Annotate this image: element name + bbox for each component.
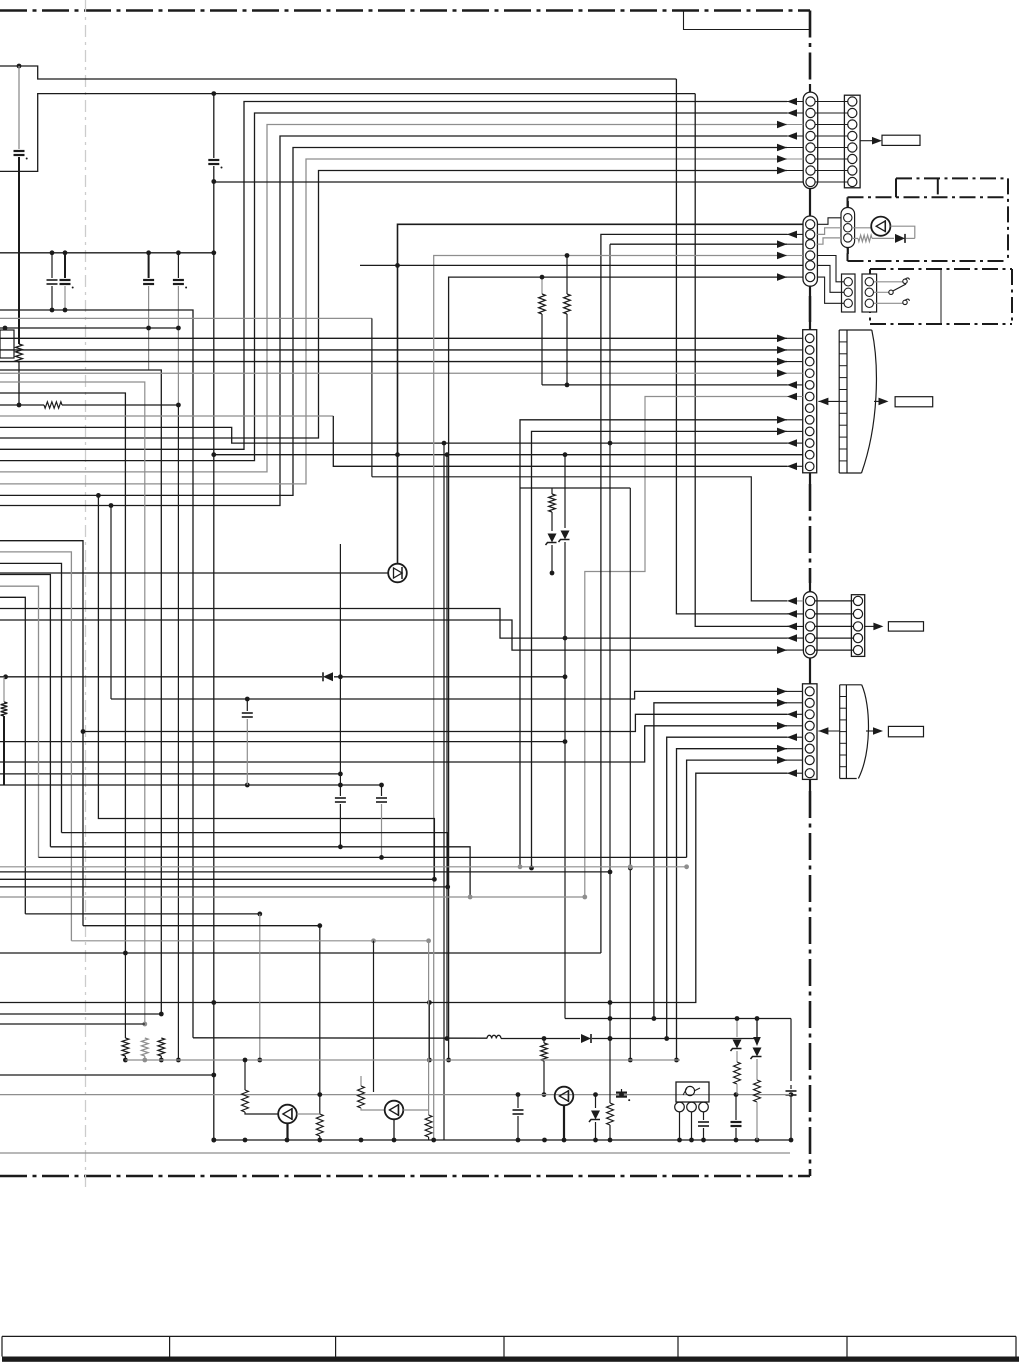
label box for CN102: [882, 135, 920, 145]
wire net-CN1-7 (left bundle to CN101 pin 7): [0, 171, 787, 439]
wire to CN301 pin2: [0, 349, 787, 351]
wire rail y676.8 with diode D1: [0, 676, 322, 678]
wire staircase net-S2: [0, 552, 71, 941]
label callout arrow for FPC2: [866, 730, 878, 732]
connector CN202 shell (3pin): [841, 208, 855, 248]
pi-shape top wire: [520, 487, 630, 489]
wire y370 riser x161 to R bottom-left: [0, 370, 161, 1014]
CN101-CN102 interconnect wires: [815, 101, 848, 103]
wire VCC top-left horizontal: [0, 66, 676, 79]
wire rail y310 to riser x193: [0, 310, 193, 1038]
transistor Q5: [555, 1087, 574, 1106]
wire rail y1038.5 with coil L1 and diode D5: [193, 1037, 487, 1039]
connector CN204 shell (3pin): [862, 274, 877, 312]
riser x444: [443, 443, 445, 1140]
wire net-CN1-5 (left bundle to CN101 pin 5): [0, 148, 787, 496]
jog CN201 pin1 to CN202 pin1: [817, 218, 841, 225]
riser x428.6 to R9: [428, 941, 430, 1115]
connector CN102 shell: [844, 95, 860, 188]
capacitor C9 x381.5: [381, 785, 383, 796]
arrow CN401 pin2: [787, 613, 803, 615]
wire rail y318 gray to riser x371.9: [0, 317, 372, 319]
resistor R1 vertical: [16, 344, 23, 362]
arrow CN301 to FPC1: [818, 400, 839, 402]
wire rail y741.6: [0, 741, 565, 743]
wire rail y925.7 to riser x319.8: [83, 925, 320, 927]
dash-dot box LED unit: [848, 196, 1009, 198]
wire bold below C1: [18, 157, 20, 344]
wire rail y897 gray: [0, 896, 585, 898]
wire y382 gray riser x144.8: [0, 382, 145, 1024]
resistor R11 below rail y1038: [543, 1039, 545, 1044]
resistor R5 below pi-top: [549, 494, 556, 512]
connector CN301 pins: [805, 334, 814, 343]
wire rail y832.6 jog to y886.9: [62, 833, 448, 887]
relay switch contacts: [874, 281, 903, 283]
wire staircase net-S1: [0, 541, 83, 926]
jog CN201 pin5 to CN203 pin2: [817, 265, 844, 292]
fold center line (light gray dash-dot): [85, 0, 87, 1190]
flex ribbon FPC2 body: [839, 685, 841, 779]
capacitor C14: [735, 1095, 737, 1120]
wire rail y1153 gray: [0, 1152, 790, 1154]
zener D7 chain x737: [736, 1019, 738, 1038]
wire to CN201 pin3: [610, 243, 787, 245]
wire rail y785 with caps: [0, 784, 382, 786]
LED D4 gray: [895, 234, 905, 243]
label box for FPC2: [888, 726, 923, 736]
connector CN101 pins: [806, 97, 815, 106]
resistor R9: [425, 1115, 432, 1137]
connector CN402 shell: [851, 595, 864, 657]
wire y405 with resistor R2: [0, 404, 44, 406]
opto coupler U1: [676, 1082, 709, 1102]
Q3 emitter bold to ground: [286, 1123, 288, 1140]
capacitor C2 (electrolytic) on riser x213.8: [213, 94, 215, 158]
riser x447: [446, 455, 448, 1039]
Q4 collector link: [403, 1109, 428, 1111]
connector CN401 shell: [803, 592, 817, 658]
wire to CN4 pin3 vertical: [695, 94, 797, 627]
wire rail y1018.5 (box top): [565, 1018, 791, 1020]
wire net-CN1-2 (left bundle to CN101 pin 2): [0, 113, 787, 461]
node on rail y699: [245, 697, 250, 702]
flex ribbon FPC1 curve: [862, 330, 877, 473]
wire rail y886.9: [0, 886, 448, 888]
board outline top dash-dot border: [0, 9, 810, 12]
transistor Q4: [360, 1076, 362, 1086]
jog CN201 pin2 to CN202 pin2 gray: [817, 228, 841, 235]
riser x373.5: [373, 941, 375, 1092]
wire to CN301 pin5 from R3/R4 node: [542, 384, 787, 386]
wire rail y1075: [0, 1074, 214, 1076]
capacitor C6 electrolytic: [177, 253, 179, 278]
wire rail y866.8 gray: [0, 866, 687, 868]
connector CN301 shell: [803, 330, 817, 473]
label box for CN402: [888, 622, 923, 631]
wire to CN301 pin4 gray: [0, 372, 787, 374]
ground bus y1140: [214, 1139, 793, 1141]
Q3 collector link: [297, 1113, 320, 1115]
wire to CN4 pin2 vertical: [676, 79, 797, 614]
wire to CN501 pin8 riser x695.8 from rail y1002.5: [0, 773, 787, 1002]
capacitor C5: [148, 253, 150, 278]
riser x259.8: [259, 914, 261, 1060]
connector CN101 shell: [803, 92, 818, 189]
connector CN402 pins: [853, 596, 862, 605]
wire to CN301 pin12 zigzag from y416: [0, 415, 333, 417]
capacitor C1 (electrolytic) on riser x19: [18, 66, 20, 149]
riser x630 long: [629, 488, 631, 1060]
wire net-CN1-1 (left bundle to CN101 pin 1): [0, 102, 787, 450]
node J0 junction dot: [17, 64, 22, 69]
CN401 bus stub bottom: [809, 658, 811, 684]
photo transistor Q2: [852, 227, 871, 229]
wire net-CN1-6 (left bundle to CN101 pin 6): [0, 159, 787, 484]
riser x791 with capacitor C10: [790, 1019, 792, 1082]
wire rail y879.3: [0, 878, 434, 880]
zener diode D3 on riser x565: [564, 455, 566, 528]
jog CN201 pin4 to CN203 pin1: [817, 256, 844, 282]
wire rail y940.8 gray to risers x373.5 x428.6: [71, 940, 428, 942]
CN501 bus stub bottom: [809, 779, 811, 791]
flex ribbon FPC2 curve: [858, 685, 868, 779]
capacitor C7 x247: [246, 699, 248, 711]
wire to CN301 pin9 from riser x531.5: [532, 431, 788, 868]
wire rail y253: [0, 252, 214, 254]
connector CN102 pins: [848, 97, 857, 106]
CN201 bus stub bottom: [809, 286, 811, 296]
wire to CN301 pin3: [0, 361, 787, 363]
node J1 junction dot on y93.6: [211, 91, 216, 96]
dash-dot box relay unit: [870, 268, 1012, 270]
CN401-CN402 interconnect wires: [815, 600, 854, 602]
wire net-CN1-8 from node J1: [214, 181, 803, 183]
wire to CN501 pin7 riser x686.6 from rail y858.8: [687, 760, 787, 857]
wire y393 riser x125.4: [0, 393, 125, 953]
capacitor C12 polarized: [621, 1089, 623, 1095]
transistor Q1 with circle: [0, 572, 388, 574]
board outline bottom dash-dot border: [0, 1175, 810, 1178]
wire to CN201 pin2: [601, 234, 787, 953]
opto pins to ground: [679, 1112, 681, 1140]
jog CN201 pin6 to CN203 pin3: [817, 277, 844, 303]
riser x178.4 long: [177, 405, 179, 1060]
capacitor C13: [698, 1121, 709, 1123]
wire to CN501 pin2 riser x653.9: [654, 703, 787, 1019]
riser x98.4 from bundle: [98, 495, 434, 879]
wire to CN301 pin6 gray riser x645: [585, 397, 787, 898]
wire to CN401 pin5 from y620 jog x512: [0, 620, 787, 650]
node J2 junction dot: [211, 179, 216, 184]
resistor R3 on riser x542: [541, 277, 543, 294]
connector CN501 pins: [805, 687, 814, 696]
riser x340.4 cap chain top: [339, 544, 341, 785]
arrow CN501 to FPC2: [818, 730, 839, 732]
wire to CN401 pin4 from y608.5 jog x500: [0, 609, 787, 639]
wire to CN301 pin11 plain: [214, 454, 803, 456]
IC pin stub box at left edge: [0, 330, 14, 358]
transistor Q3: [244, 1060, 246, 1090]
jog CN201 pin3 to CN202 pin3 gray: [817, 238, 841, 244]
wire staircase net-S6: [0, 597, 25, 914]
wire to CN501 pin4 from rail y762: [0, 726, 787, 762]
wire rail y846.8 jog to y897: [50, 847, 470, 897]
LED return wire: [890, 226, 914, 238]
junction dots on rail y328: [146, 326, 151, 331]
junction dots on rail y310: [50, 308, 55, 313]
wire to CN501 pin1 from rail y699: [111, 691, 787, 699]
connector CN201 pins: [806, 220, 815, 229]
wire rail y871.9: [0, 871, 610, 873]
diode D6 vertical: [595, 1095, 597, 1108]
riser x757 short with down arrow: [756, 1019, 758, 1041]
connector CN401 pins: [806, 596, 815, 605]
label box for FPC1: [895, 397, 933, 407]
wire net-CN1-4 (left bundle to CN101 pin 4): [0, 136, 787, 506]
wire rail y953: [0, 952, 601, 954]
title box top right: [684, 11, 811, 30]
label callout arrow for FPC1: [874, 400, 878, 402]
wire rail y857.4: [39, 856, 687, 858]
wire to CN301 pin8 from riser x520: [520, 420, 787, 867]
wire to CN501 pin6 riser x676.5: [677, 749, 788, 1060]
CN301 bus stub bottom: [809, 473, 811, 484]
wire to CN201 pin4 riser x433.7 gray: [434, 256, 787, 1141]
wire staircase net-S3: [0, 563, 62, 832]
capacitor C3: [51, 253, 53, 278]
resistor R4 on riser x567: [566, 256, 568, 295]
riser x213.8 long vertical to bottom: [213, 182, 215, 1141]
wire net-CN1-3 (left bundle to CN101 pin 3): [0, 125, 787, 472]
CN401 bus stub top: [809, 583, 811, 592]
wire to CN501 pin5 riser x666.7: [667, 737, 787, 1038]
wire to CN201 pin5 from Q1 node: [360, 264, 803, 266]
connector CN202 pins: [844, 214, 852, 222]
capacitor C8 x340: [339, 785, 341, 796]
wire staircase net-S5: [0, 586, 39, 857]
wire to CN401 pin1 gray from y476.8: [372, 477, 787, 601]
capacitor C4 electrolytic: [64, 253, 66, 278]
wire to CN501 pin3 from rail y731.5: [83, 714, 787, 731]
riser x429.4 down to rail y1060: [428, 1003, 430, 1061]
resistor R10: [607, 1103, 614, 1125]
capacitor C11: [517, 1095, 519, 1108]
wire y1024 from left edge: [0, 1023, 145, 1025]
connector CN203 shell (3pin): [842, 274, 856, 312]
resistor R8: [317, 1092, 322, 1097]
resistor R6 gray: [852, 237, 858, 239]
wire y1014 from left edge: [0, 1013, 161, 1015]
wire Q1 collector up (bold wire to CN2 pin1): [398, 224, 804, 563]
wire to CN201 pin6 riser x448.6: [449, 277, 787, 1060]
wire to CN301 pin1: [0, 337, 787, 339]
CN101 bus stub top: [809, 84, 811, 92]
wire rail y328: [0, 327, 178, 329]
wire rail y1060: [125, 1059, 680, 1061]
wire staircase net-S4: [0, 575, 50, 847]
zener diode D2: [548, 534, 557, 543]
wire rail y1094.6 gray long: [0, 1094, 791, 1096]
resistor R7 at left edge: [3, 677, 5, 702]
wire rail y773.9: [0, 773, 340, 775]
zener D8 chain x757: [753, 1048, 762, 1057]
Q4 emitter: [393, 1119, 395, 1140]
revision table: [2, 1335, 1016, 1337]
connector CN201 shell: [803, 216, 817, 286]
connector CN501 shell: [803, 684, 818, 780]
riser x111 for rail y699: [110, 506, 112, 700]
wire to CN301 pin10 zigzag from y427.4: [0, 427, 787, 443]
board outline right dash-dot border: [809, 11, 812, 85]
label callout arrow for CN402: [865, 625, 878, 627]
arrow CN401 pin3: [787, 625, 803, 627]
CN101 bus stub bottom: [809, 189, 811, 216]
CN301 bus stub top: [809, 322, 811, 330]
wire from left edge y171 up to y93.6: [0, 94, 695, 172]
wire rail y913.9 to riser x259.8: [25, 913, 259, 915]
riser x610 from CN2 pin3 corner: [609, 244, 611, 1038]
flex ribbon FPC1 body: [838, 330, 840, 473]
label callout arrow for CN102: [860, 140, 876, 142]
